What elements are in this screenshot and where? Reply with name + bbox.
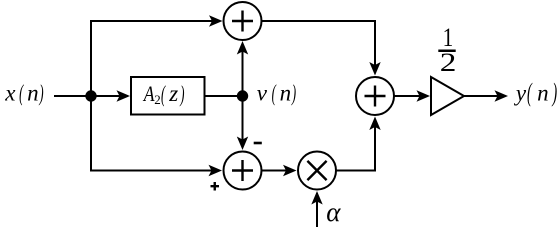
svg-text:): ) bbox=[180, 82, 185, 108]
node input junction bbox=[85, 90, 96, 101]
wire right adder to gain triangle bbox=[394, 95, 427, 97]
arrowhead into block A2 bbox=[117, 90, 131, 101]
arrowhead into multiplier bbox=[283, 165, 297, 176]
label v(n) bbox=[257, 81, 296, 107]
wire branch down-left to bottom adder bbox=[91, 96, 219, 171]
svg-text:n: n bbox=[537, 81, 549, 106]
wire branch up-left to top adder bbox=[91, 21, 220, 96]
label plus sign bbox=[211, 182, 220, 191]
adder bottom (summer) bbox=[224, 152, 262, 190]
svg-text:A: A bbox=[142, 82, 155, 106]
wire top adder to right adder bbox=[262, 21, 376, 73]
arrowhead into gain triangle bbox=[417, 90, 431, 101]
gain triangle 1/2 bbox=[431, 77, 464, 115]
svg-text:): ) bbox=[552, 77, 557, 107]
svg-text:n: n bbox=[280, 81, 292, 106]
arrowhead into right adder top bbox=[369, 62, 380, 76]
arrowhead into bottom adder top bbox=[237, 137, 248, 151]
adder top (summer) bbox=[224, 2, 262, 40]
arrowhead into multiplier bottom bbox=[311, 191, 322, 205]
svg-text:2: 2 bbox=[440, 48, 457, 77]
label y(n) bbox=[514, 77, 557, 107]
adder right (summer) bbox=[356, 77, 394, 115]
svg-text:v: v bbox=[257, 81, 268, 106]
arrowhead into bottom adder bbox=[209, 165, 223, 176]
wire input lead bbox=[54, 95, 91, 97]
wire alpha input bbox=[316, 193, 318, 227]
label A2(z) bbox=[142, 81, 185, 108]
arrowhead into top adder bottom bbox=[237, 41, 248, 55]
label x(n) bbox=[4, 81, 43, 107]
wire node to block A2 bbox=[91, 95, 128, 97]
svg-text:): ) bbox=[291, 81, 296, 107]
wire multiplier to right adder bbox=[336, 119, 375, 171]
label minus sign bbox=[254, 142, 262, 145]
svg-text:z: z bbox=[168, 81, 178, 106]
wire v node down to bottom adder bbox=[242, 96, 244, 147]
block A2(z) bbox=[131, 77, 205, 115]
node v junction bbox=[237, 90, 248, 101]
multiplier bbox=[298, 152, 336, 190]
svg-text:α: α bbox=[326, 197, 341, 227]
arrowhead into top adder bbox=[209, 15, 223, 26]
svg-text:n: n bbox=[27, 81, 38, 106]
svg-text:y: y bbox=[514, 81, 527, 106]
svg-text:2: 2 bbox=[154, 92, 161, 107]
arrowhead output bbox=[495, 90, 509, 101]
wire block to node v bbox=[205, 95, 243, 97]
wire v node up to top adder bbox=[242, 44, 244, 96]
wire output bbox=[464, 95, 505, 97]
arrowhead into right adder bottom bbox=[369, 117, 380, 131]
svg-text:): ) bbox=[39, 81, 44, 107]
wire bottom adder to multiplier bbox=[262, 170, 294, 172]
svg-text:x: x bbox=[4, 81, 16, 106]
